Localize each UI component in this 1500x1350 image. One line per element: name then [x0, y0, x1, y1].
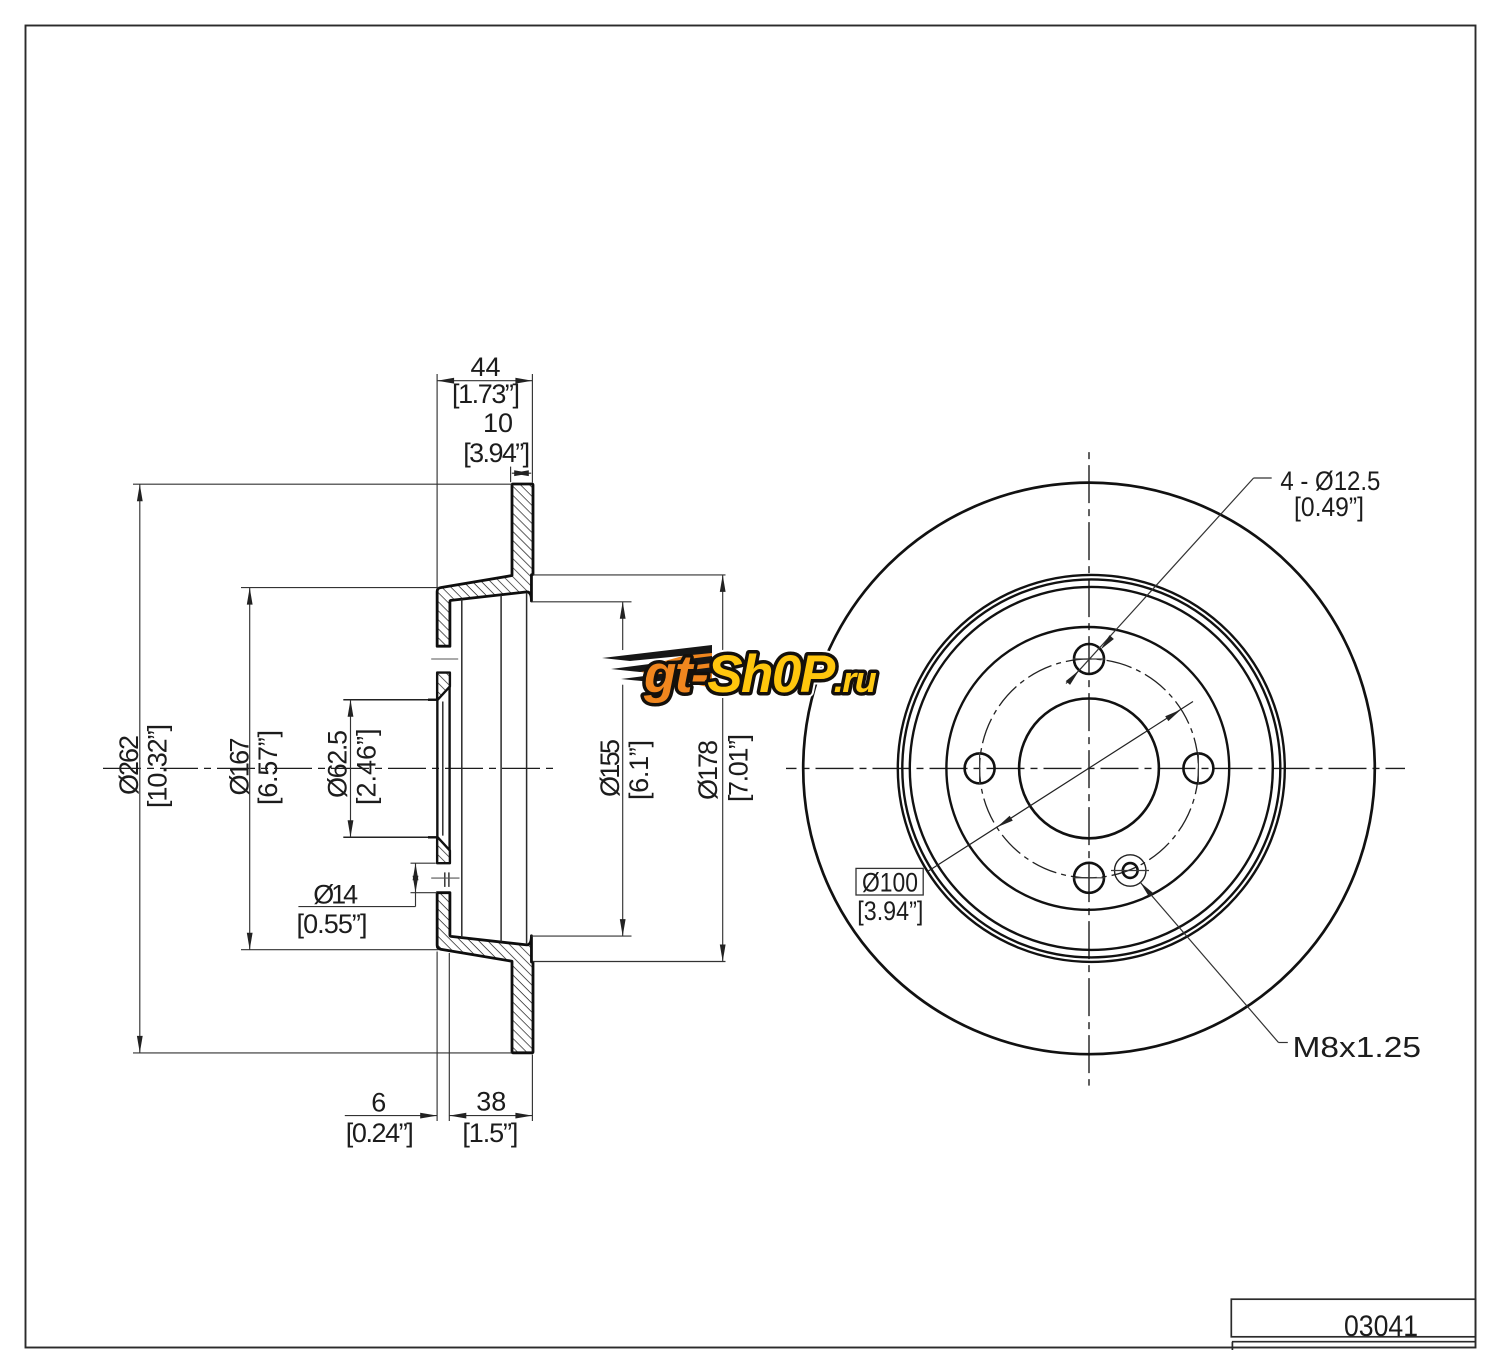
- svg-text:38: 38: [476, 1086, 506, 1116]
- center bore O62.5 bottom wall edge: [343, 836, 437, 838]
- dim 38 arrow right: [515, 1113, 532, 1119]
- bolt circle O100 (dash-dot): [980, 659, 1199, 878]
- hat outer circle O167: [910, 587, 1273, 950]
- svg-text:[6.1”]: [6.1”]: [624, 740, 654, 800]
- bore left wall line: [436, 700, 438, 837]
- dim O62.5 line: [350, 700, 352, 838]
- logo white halo: [602, 645, 877, 704]
- dim O178 line: [722, 575, 724, 962]
- section: flange strip between top bolt hole and bore chamfer, hatched: [437, 673, 450, 700]
- center bore O62.5 top wall edge: [343, 699, 437, 701]
- dim 10 line: [512, 472, 531, 474]
- dim 6 arrow: [420, 1113, 437, 1119]
- outer disc circle O262: [803, 483, 1375, 1055]
- leader line M8x1.25: [1140, 882, 1288, 1042]
- dim O262 arrow bottom: [137, 1036, 143, 1053]
- dim O155 line: [622, 602, 624, 936]
- logo speed line 1: [602, 645, 712, 661]
- flange rear face edge through bore: [448, 686, 450, 850]
- front view vertical centerline: [1088, 451, 1090, 1086]
- bore bottom edge (thick at part): [428, 836, 438, 838]
- dim O100 label box: [856, 868, 923, 895]
- svg-text:[7.01”]: [7.01”]: [724, 734, 754, 802]
- bolt hole left O12.5: [965, 753, 995, 783]
- svg-text:[0.24”]: [0.24”]: [346, 1118, 414, 1148]
- dim 10 arrow left: [512, 470, 529, 476]
- front view horizontal centerline: [786, 767, 1405, 769]
- dim O178 extension line bottom: [533, 961, 726, 963]
- bore chamfer inner edge: [442, 702, 444, 836]
- dim 38 arrow left: [449, 1113, 466, 1119]
- logo text gt-Sh0P.ru: [643, 645, 877, 704]
- dim O262 arrow top: [137, 484, 143, 501]
- dim 6 line: [345, 1115, 437, 1117]
- logo speed line 2: [611, 656, 712, 672]
- right bolt hole tick: [1197, 752, 1199, 784]
- svg-text:[10.32”]: [10.32”]: [143, 724, 173, 808]
- svg-text:[6.57”]: [6.57”]: [253, 730, 283, 805]
- bolt hole bottom O12.5: [1074, 863, 1104, 893]
- svg-text:Ø262: Ø262: [114, 735, 144, 795]
- dim O14 leader underline: [298, 906, 415, 908]
- bottom bolt hole centerline tick (section): [431, 877, 459, 879]
- leader line 4-O12.5: [1066, 478, 1272, 684]
- bolt hole right O12.5: [1183, 753, 1213, 783]
- M8 hole tick: [1111, 870, 1149, 872]
- svg-text:M8x1.25: M8x1.25: [1293, 1032, 1422, 1064]
- M8 thread hole minor circle: [1123, 863, 1138, 878]
- center bore circle O62.5: [1019, 699, 1159, 839]
- section: lower half (hat flange + hat wall + friction ring), hatched: [437, 893, 533, 1053]
- dim 44 arrow right: [515, 378, 532, 384]
- dim O100 diagonal line: [927, 702, 1193, 872]
- svg-text:6: 6: [371, 1087, 386, 1117]
- svg-text:10: 10: [483, 408, 513, 438]
- dim O262 extension line top: [133, 483, 512, 485]
- svg-text:44: 44: [470, 352, 500, 382]
- top bolt hole tick: [1073, 658, 1105, 660]
- dim O167 arrow top: [247, 588, 253, 605]
- dim O62.5 arrow top: [348, 700, 354, 717]
- logo speed line 3: [621, 667, 714, 682]
- svg-text:Ø100: Ø100: [862, 868, 918, 898]
- dim 10 extension line left: [510, 467, 512, 483]
- svg-text:[3.94”]: [3.94”]: [463, 438, 530, 468]
- leader 4-O12.5 arrow upper: [1098, 635, 1114, 652]
- dim O155 extension line top: [531, 601, 631, 603]
- svg-text:[3.94”]: [3.94”]: [857, 896, 923, 926]
- dim O155 extension line bottom: [531, 935, 631, 937]
- dim O14 extension line bottom: [411, 892, 438, 894]
- left bolt hole tick: [979, 752, 981, 784]
- hat interior visible edge A: [461, 599, 463, 937]
- dim O155 arrow top: [620, 602, 626, 619]
- dimension lines of section view: [133, 374, 726, 1121]
- leader 4-O12.5 arrow lower: [1066, 668, 1082, 685]
- dim O167 arrow bottom: [247, 933, 253, 950]
- dim O155 arrow bottom: [620, 919, 626, 936]
- dim O62.5 arrow bottom: [348, 820, 354, 837]
- logo orange speed wedge: [632, 648, 712, 688]
- hub register circle: [946, 627, 1229, 910]
- friction surface inner circle O178: [898, 575, 1285, 962]
- dim 44 extension line right: [531, 374, 533, 483]
- M8 thread hole major circle: [1115, 855, 1146, 886]
- dim 6 extension line left: [436, 952, 438, 1122]
- dim 44 extension line left: [436, 374, 438, 587]
- svg-text:Ø155: Ø155: [595, 739, 625, 797]
- svg-text:[1.73”]: [1.73”]: [452, 379, 520, 409]
- dim O262 extension line bottom: [133, 1052, 512, 1054]
- svg-text:[0.49”]: [0.49”]: [1294, 492, 1364, 522]
- dim O14 extension line top: [411, 862, 436, 864]
- svg-text:Ø178: Ø178: [693, 740, 723, 800]
- dim 6/38 shared extension line: [448, 953, 450, 1121]
- watermark logo gt-shop.ru: [602, 645, 877, 704]
- dim O100 arrow upper: [1165, 707, 1182, 721]
- section view axis centerline: [103, 767, 556, 769]
- section: upper half (hat flange + hat wall + friction ring), hatched: [437, 484, 533, 646]
- svg-text:Ø62.5: Ø62.5: [323, 730, 353, 798]
- dim O262 line: [139, 484, 141, 1053]
- dim 44 line: [437, 380, 532, 382]
- dim 38 line: [449, 1115, 532, 1117]
- dim O167 extension line bottom: [241, 949, 439, 951]
- dim O167 extension line top: [241, 587, 439, 589]
- far-side hole edges inside bottom bolt-hole void: [445, 872, 449, 887]
- dim O14 arrow bottom: [413, 876, 419, 893]
- dim 38 extension line right: [531, 1055, 533, 1122]
- dim 10 arrow right: [514, 470, 531, 476]
- dim 44 arrow left: [437, 378, 454, 384]
- dim O178 extension line top: [533, 574, 726, 576]
- svg-text:Ø167: Ø167: [225, 738, 255, 796]
- bolt hole top O12.5: [1074, 644, 1104, 674]
- bore top edge (thick at part): [428, 699, 438, 701]
- svg-text:[0.55”]: [0.55”]: [297, 909, 368, 939]
- hat rim circle: [902, 579, 1280, 957]
- leader M8 arrow: [1138, 881, 1153, 898]
- svg-text:03041: 03041: [1344, 1310, 1418, 1343]
- dim O178 arrow top: [720, 575, 726, 592]
- title block: [1231, 1299, 1475, 1350]
- dim O14 arrow top: [413, 863, 419, 880]
- dim O178 arrow bottom: [720, 945, 726, 962]
- dim O167 line: [249, 588, 251, 950]
- dimension labels of section view: [114, 352, 754, 1148]
- top bolt hole centerline tick (section): [431, 658, 458, 660]
- dim O100 arrow lower: [995, 816, 1012, 830]
- svg-text:[2.46”]: [2.46”]: [352, 728, 382, 805]
- section: flange strip between bore chamfer and bottom bolt hole, hatched: [437, 837, 450, 863]
- svg-text:[1.5”]: [1.5”]: [462, 1118, 518, 1148]
- svg-text:Ø14: Ø14: [313, 880, 358, 910]
- bottom bolt hole tick: [1073, 877, 1105, 879]
- dim O14 line: [415, 863, 417, 906]
- hat interior visible edge C: [526, 593, 528, 945]
- hat interior visible edge B: [500, 595, 502, 942]
